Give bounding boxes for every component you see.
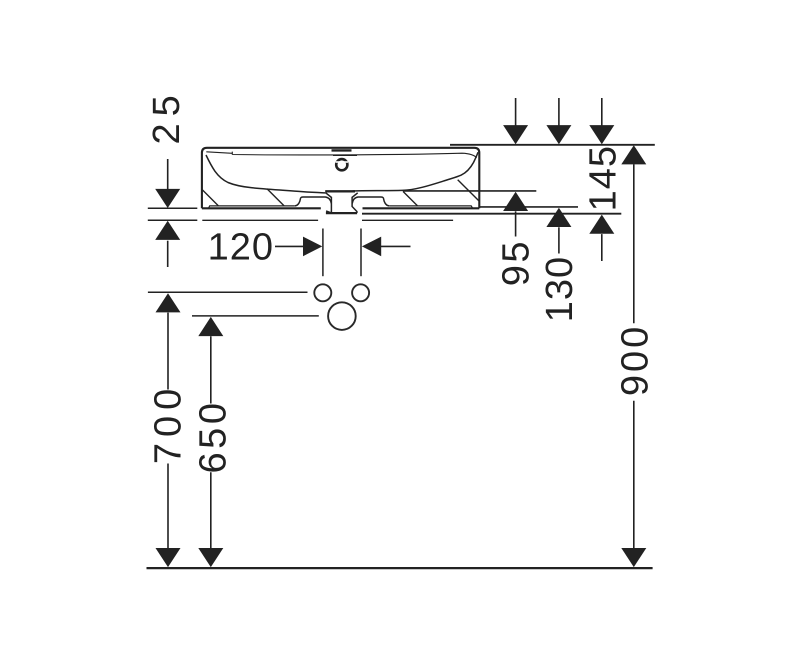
overflow hole chord [336,161,348,163]
dim 650 line [210,336,212,549]
arrowhead left 120 [362,237,381,257]
foot notch left [295,197,332,206]
svg-text:120: 120 [208,227,274,269]
bowl inner curve left [206,155,326,193]
washbasin outer contour [202,148,479,209]
svg-text:25: 25 [146,88,188,144]
svg-text:130: 130 [539,256,581,322]
dim 25 arrow line upper [167,159,169,190]
dim 25 extension bottom [148,219,198,221]
foot plate line right [389,206,473,209]
arrowhead up 145 [589,215,614,234]
arrowhead up 650 [198,317,223,336]
arrowhead up 700 [156,293,181,312]
dim 145 arrow tail [601,234,603,261]
top reference line [450,144,655,146]
foot notch right [352,197,389,206]
dim 900 line [633,164,635,548]
dim 700 level line [148,291,308,293]
washbasin bottom edge [202,207,479,209]
hatch line 3 [403,191,417,205]
svg-text:95: 95 [496,239,538,286]
drain tail right wall [352,197,357,213]
overflow hole O [336,159,347,170]
arrowhead up 900 top [621,145,646,164]
arrowhead down 130 top [546,125,571,144]
arrowhead down 650 [198,548,223,567]
dim 25 arrow line lower [167,241,169,267]
svg-text:900: 900 [615,324,657,396]
under-basin line right [362,219,453,221]
svg-text:145: 145 [583,145,625,211]
dim 120 line right tail [381,245,411,247]
drain flange [325,190,355,192]
dim 130 arrow tail [558,227,560,253]
faucet hole circle large [328,302,356,330]
hatch line 2 [267,189,284,206]
level line 95 [403,190,536,192]
top down-arrow tails [516,98,602,126]
arrowhead down 700 [156,548,181,567]
arrowhead down 900 bottom [621,548,646,567]
arrowhead down 95 top [503,125,528,144]
level line 130 [479,206,578,208]
level line 145 [362,213,621,215]
arrowhead up 130 [546,208,571,227]
hatch line 4 [458,180,479,201]
arrowhead up 95 [503,192,528,211]
arrowhead down 25 [155,189,180,208]
dim 120 extension line right [360,229,362,277]
arrowhead up 25 [155,221,180,240]
dim 25 extension top [148,207,198,209]
washbasin inner rim line [206,152,476,158]
drain tail bottom [326,212,357,214]
under-basin line left [202,219,318,221]
foot plate line left [208,206,294,209]
floor line [147,567,653,569]
dim 95 arrow tail [515,211,517,236]
rim dark segment center [332,149,352,151]
dim 120 extension line left [322,229,324,277]
svg-text:650: 650 [193,400,235,474]
funnel right outer wall [352,193,358,198]
dim 650 level line [192,315,319,317]
rim lower dark segment [333,154,357,156]
faucet hole circle small right [352,284,369,301]
dim 120 line left [275,245,303,247]
arrowhead right 120 [303,237,322,257]
arrowhead down 145 top [589,125,614,144]
hatch line 1 [202,190,218,206]
faucet hole circle small left [314,284,331,301]
drain tail left wall [326,197,331,213]
dim 700 line [167,313,169,549]
bowl inner curve right [353,152,478,191]
funnel left outer wall [326,193,332,198]
svg-text:700: 700 [148,383,190,464]
